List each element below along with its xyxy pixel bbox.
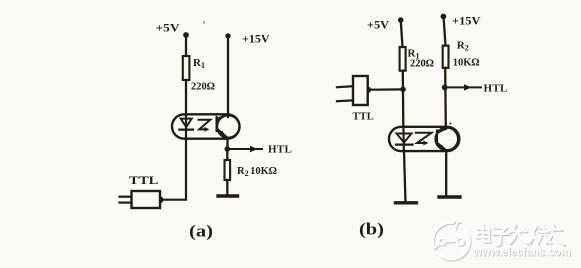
TTL inputs (a) bbox=[120, 197, 132, 203]
phototransistor circle (a) bbox=[217, 115, 239, 137]
wire LED cathode to ground (b) bbox=[404, 152, 406, 203]
wire emitter to ground (b) bbox=[445, 152, 447, 197]
node +5V terminal (b) bbox=[398, 17, 404, 23]
wire R1 to optocoupler (a) bbox=[185, 80, 187, 115]
wire TTL output to LED cathode (a) bbox=[164, 138, 186, 199]
resistor R1 (a) bbox=[183, 56, 190, 80]
svg-text:R1: R1 bbox=[193, 57, 205, 70]
watermark logo circle bbox=[434, 221, 471, 261]
svg-text:R2: R2 bbox=[457, 40, 469, 53]
svg-text:220Ω: 220Ω bbox=[191, 82, 215, 93]
svg-text:R210KΩ: R210KΩ bbox=[237, 166, 277, 178]
phototransistor circle (b) bbox=[436, 128, 459, 151]
wire +15V to phototransistor (a) bbox=[227, 37, 229, 117]
TTL gate bubble (a) bbox=[160, 196, 164, 203]
wire through LED (b) bbox=[402, 127, 405, 151]
ground right (b) bbox=[439, 195, 460, 198]
phototransistor Q1 (a) bbox=[217, 115, 228, 139]
node junction (a) bbox=[225, 146, 231, 152]
ground left (b) bbox=[396, 201, 417, 204]
opto-coupler U1 (a) outline bbox=[172, 114, 240, 138]
svg-text:+5V: +5V bbox=[156, 21, 180, 35]
svg-text:220Ω: 220Ω bbox=[410, 59, 434, 70]
TTL gate bubble (b) bbox=[368, 87, 371, 93]
light arrows (a) bbox=[199, 120, 211, 132]
wire through LED (a) bbox=[185, 114, 187, 138]
wire R2 to phototransistor (b) bbox=[444, 68, 447, 129]
speckle dot 2 bbox=[449, 122, 451, 124]
resistor R1 (b) bbox=[400, 47, 406, 71]
svg-text:www.elecfans.com: www.elecfans.com bbox=[473, 245, 571, 259]
TTL inputs (b) bbox=[337, 86, 353, 101]
HTL arrow (a) bbox=[227, 146, 262, 152]
svg-text:TTL: TTL bbox=[129, 173, 159, 187]
wire R2 to ground (a) bbox=[226, 180, 228, 195]
opto-coupler U2 (b) outline bbox=[389, 127, 459, 151]
wire junction to R2 (a) bbox=[226, 149, 228, 160]
LED diode (a) bbox=[179, 119, 193, 130]
svg-text:+5V: +5V bbox=[367, 18, 389, 32]
svg-text:(a): (a) bbox=[189, 222, 213, 241]
resistor R2 (b) bbox=[443, 46, 449, 68]
svg-text:HTL: HTL bbox=[484, 83, 508, 95]
node TTL junction (b) bbox=[400, 87, 406, 93]
resistor R2 (a) bbox=[225, 160, 231, 180]
phototransistor Q2 (b) bbox=[437, 128, 447, 151]
wire +5V to R1 (b) bbox=[401, 21, 403, 47]
TTL gate box (b) bbox=[353, 76, 368, 105]
svg-text:10KΩ: 10KΩ bbox=[453, 58, 480, 69]
ground (a) bbox=[218, 194, 238, 197]
wire emitter to HTL node (a) bbox=[226, 139, 228, 150]
watermark logo pads and trace bbox=[434, 222, 465, 249]
wire TTL output to junction (b) bbox=[371, 88, 403, 90]
wire R1 to optocoupler (b) bbox=[402, 71, 405, 127]
svg-text:+15V: +15V bbox=[242, 32, 270, 46]
node HTL junction (b) bbox=[442, 85, 448, 91]
svg-text:(b): (b) bbox=[359, 220, 384, 239]
svg-text:TTL: TTL bbox=[353, 112, 374, 123]
svg-text:+15V: +15V bbox=[452, 14, 481, 28]
speckle dot bbox=[203, 22, 205, 24]
LED diode (b) bbox=[396, 134, 413, 145]
TTL gate box (a) bbox=[132, 191, 161, 208]
svg-text:HTL: HTL bbox=[268, 144, 292, 156]
node +15V terminal (a) bbox=[225, 33, 230, 38]
node +15V terminal (b) bbox=[441, 14, 447, 20]
watermark text 电子发烧友 bbox=[477, 225, 565, 247]
HTL arrow (b) bbox=[445, 84, 481, 90]
node +5V terminal (a) bbox=[183, 32, 189, 38]
light arrows (b) bbox=[416, 133, 432, 146]
wire +15V to R2 (b) bbox=[444, 18, 446, 46]
wire +5V to R1 (a) bbox=[185, 36, 187, 56]
